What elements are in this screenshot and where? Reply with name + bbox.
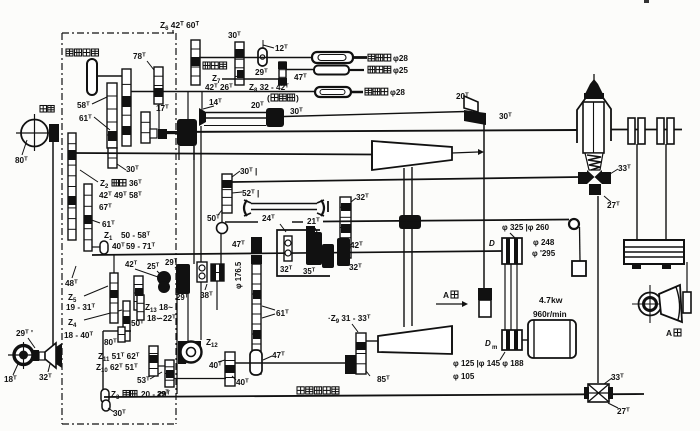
upper cone drum	[372, 141, 452, 170]
gear bar 32T/42T right	[340, 197, 351, 258]
gear bar 29T/47T	[279, 62, 286, 85]
dark block	[158, 129, 167, 139]
svg-text:m: m	[492, 345, 497, 351]
tension pulley	[569, 219, 579, 229]
gearbox dashed boundary	[62, 32, 176, 34]
shaft 20T double line	[206, 112, 266, 114]
gear bar 42T/26T	[191, 40, 200, 85]
oval gear at rack bottom	[250, 350, 262, 375]
svg-text:φ28: φ28	[393, 54, 408, 63]
front roller	[315, 87, 351, 97]
svg-text:4.7kw: 4.7kw	[539, 295, 563, 305]
clutch gear bottom right	[588, 384, 609, 402]
clutch cluster dark	[177, 119, 197, 146]
svg-text:59 - 71T: 59 - 71T	[126, 242, 156, 251]
wire vertical from worm down to bevel	[52, 142, 54, 346]
belt shifter dark	[399, 215, 421, 229]
svg-text:φ 325 |φ 260: φ 325 |φ 260	[502, 223, 550, 232]
svg-text:A: A	[443, 290, 449, 300]
spindle cap	[585, 79, 603, 94]
worm wheel Z12	[187, 294, 189, 341]
worm block on wheel shaft	[49, 124, 59, 142]
label 单线	[40, 106, 47, 113]
Z3 oval gears	[101, 389, 109, 403]
hatch block 85T	[345, 355, 356, 374]
pulley Dm	[502, 330, 522, 350]
main cone wire y153	[71, 153, 374, 155]
bevel pair	[464, 96, 478, 112]
rods	[636, 144, 638, 240]
presser rollers	[611, 129, 682, 131]
belt between cones	[403, 168, 405, 327]
svg-text:18 - 40T: 18 - 40T	[64, 331, 94, 340]
dark gear segments	[122, 96, 131, 107]
handwheel	[87, 59, 97, 95]
long rack bar left	[68, 133, 76, 240]
back roller	[312, 52, 353, 63]
gear bars Z5/Z4 cluster	[110, 273, 118, 323]
svg-text:50 - 58T: 50 - 58T	[121, 231, 151, 240]
svg-text:φ '295: φ '295	[532, 249, 556, 258]
svg-text:φ28: φ28	[390, 88, 405, 97]
svg-text:960r/min: 960r/min	[533, 310, 567, 319]
vertical shaft x484	[483, 124, 485, 290]
yarn squiggle	[585, 153, 603, 170]
wire y374	[174, 378, 226, 380]
gear bar 1	[122, 69, 131, 146]
gear bar 30T top	[235, 42, 244, 85]
wire to cone view	[686, 262, 688, 292]
80T gear T shape	[117, 330, 131, 332]
wire y221	[225, 221, 258, 223]
svg-text:18∽22T: 18∽22T	[147, 314, 176, 323]
svg-text:29T ': 29T '	[16, 329, 33, 338]
label 电磁离合器	[297, 387, 304, 394]
12T oval	[258, 48, 267, 66]
svg-text:19 - 31T: 19 - 31T	[66, 303, 96, 312]
rack vertical bar	[252, 264, 261, 374]
wire y363	[235, 362, 347, 364]
gear with holes 38T	[197, 262, 207, 282]
small oval gear 40T	[100, 241, 108, 254]
gear bar Z9	[356, 333, 366, 374]
motor	[522, 339, 528, 341]
wire x103 down	[102, 331, 104, 396]
roller shafts	[199, 57, 312, 59]
gear bar 40T	[225, 352, 235, 386]
tumbler gearbox outline	[277, 230, 330, 276]
svg-text:φ25: φ25	[393, 66, 408, 75]
svg-text:φ 125 |φ 145 φ 188: φ 125 |φ 145 φ 188	[453, 359, 524, 368]
wire x598 down	[597, 196, 599, 383]
dark gear cluster in box	[306, 226, 315, 236]
roller labels	[368, 54, 375, 61]
flange coupling 14T	[199, 108, 206, 126]
svg-text:52T |: 52T |	[242, 189, 259, 198]
small bar 30T	[108, 148, 117, 168]
svg-text:42T 49T 58T: 42T 49T 58T	[99, 191, 142, 200]
svg-text:A: A	[666, 328, 672, 338]
label 升降手轮	[66, 49, 73, 56]
wire to bevel right	[284, 112, 466, 117]
svg-text:φ 105: φ 105	[453, 372, 475, 381]
bottom cone (flyer)	[378, 326, 452, 354]
striped block	[624, 240, 684, 264]
label 总欠伸	[203, 62, 210, 69]
single-thread wheel circle	[21, 120, 48, 147]
spindle flyer	[577, 92, 611, 143]
svg-text:D: D	[485, 339, 491, 348]
gear bar 30T/52T	[222, 174, 232, 213]
gear bar 2	[107, 83, 117, 148]
inner gear bar	[284, 236, 292, 261]
jockey pulley circle	[217, 223, 228, 234]
wire y254 long	[92, 251, 502, 255]
main long wire y131	[167, 130, 577, 132]
vertical wires in middle	[193, 146, 195, 264]
dark gear 30T on shaft	[266, 108, 284, 127]
cone centre wire with arrow	[452, 152, 478, 153]
middle roller	[314, 66, 349, 75]
wharve gear 33T/27T	[578, 172, 587, 184]
gear 78T	[154, 67, 163, 104]
svg-text:φ 248: φ 248	[533, 238, 555, 247]
weight box	[572, 261, 586, 276]
gear bar right of 38T	[211, 264, 224, 281]
svg-text:): )	[296, 93, 299, 103]
pulley D	[510, 233, 515, 238]
wire y181 long	[232, 177, 580, 182]
hanging weight on x484	[478, 288, 492, 300]
svg-text:42T 26T: 42T 26T	[205, 83, 233, 92]
belts down	[504, 264, 506, 330]
svg-text:30T |: 30T |	[240, 167, 257, 176]
fork shaft	[244, 200, 247, 216]
svg-text:φ 176.5: φ 176.5	[234, 261, 243, 289]
A-view cone pulley	[639, 293, 662, 316]
gear bars 51/62	[149, 346, 158, 376]
gear bar Z2	[84, 184, 92, 251]
gear bar small	[141, 112, 150, 143]
bobbin	[583, 102, 604, 153]
svg-text:(: (	[267, 93, 270, 103]
svg-text:D: D	[489, 239, 495, 248]
bottom long wire	[104, 394, 644, 397]
